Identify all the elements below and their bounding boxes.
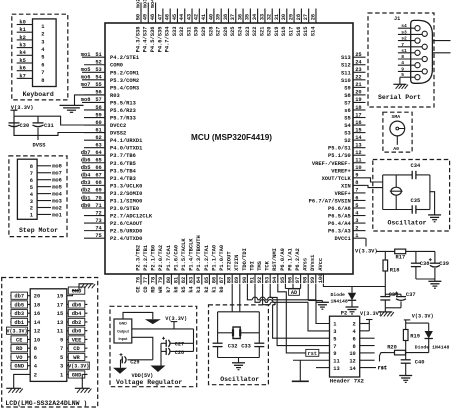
SMA label xyxy=(392,114,401,120)
MCU pin 74 P2.5/URXD0 xyxy=(84,225,142,234)
svg-text:3: 3 xyxy=(30,199,33,205)
MCU pin 57 P5.5/R13 xyxy=(81,97,136,106)
svg-text:54: 54 xyxy=(95,75,102,81)
svg-text:1N4148: 1N4148 xyxy=(331,298,348,304)
svg-text:8: 8 xyxy=(353,344,356,350)
MCU pin 58 P5.6/R23 xyxy=(84,105,136,114)
step motor module dashed box xyxy=(9,156,67,237)
svg-text:44: 44 xyxy=(179,13,185,20)
svg-text:P5.5/R13: P5.5/R13 xyxy=(110,100,136,106)
keyboard connector body xyxy=(33,19,57,87)
svg-text:4: 4 xyxy=(401,60,404,66)
oscillator2 module dashed box xyxy=(209,305,269,385)
wire pin 92 TMS to header pin 5 xyxy=(263,284,330,338)
svg-text:25: 25 xyxy=(355,52,361,58)
wire pin 93 TCK to header pin 7 xyxy=(270,284,329,346)
MCU pin 81 P1.6/CA0 xyxy=(173,245,179,293)
power net V(3.3V) header xyxy=(360,311,382,320)
header pins 1 2 xyxy=(333,322,356,328)
MCU pin 66 P3.5/TB4 xyxy=(81,165,137,174)
svg-text:GND: GND xyxy=(72,289,82,295)
MCU pin 29 S17 xyxy=(288,9,294,37)
svg-text:S32: S32 xyxy=(179,27,185,37)
SMA wire to net A0 xyxy=(393,136,399,152)
resistor R18 xyxy=(383,251,400,296)
LCD pin 2 wire to ground xyxy=(14,372,37,388)
capacitor C28 xyxy=(166,348,184,356)
capacitor C32 xyxy=(213,343,238,349)
svg-text:S31: S31 xyxy=(186,27,192,37)
svg-text:83: 83 xyxy=(189,277,195,283)
svg-text:42: 42 xyxy=(194,14,200,20)
svg-text:R20: R20 xyxy=(387,345,397,351)
svg-text:86: 86 xyxy=(211,277,217,283)
svg-text:S10: S10 xyxy=(341,78,351,84)
svg-text:mo3: mo3 xyxy=(52,198,62,204)
svg-text:11: 11 xyxy=(57,329,63,335)
serial wire s1 xyxy=(398,48,415,54)
svg-text:C32: C32 xyxy=(228,344,238,350)
svg-text:Serial Port: Serial Port xyxy=(378,94,421,101)
svg-text:RD: RD xyxy=(16,346,23,352)
svg-text:29: 29 xyxy=(288,14,294,20)
LCD pin 11 net db0 xyxy=(57,327,88,335)
svg-text:DVSS2: DVSS2 xyxy=(110,131,126,137)
MCU pin 79 P2.0/TA2 xyxy=(158,245,164,293)
serial wire s2 xyxy=(398,36,415,42)
svg-text:db5: db5 xyxy=(14,302,24,308)
svg-text:S29: S29 xyxy=(201,27,207,37)
wire MCU pin 88 XT2OUT to oscillator2 xyxy=(231,284,233,312)
svg-text:P3.1/SIMO0: P3.1/SIMO0 xyxy=(110,198,142,204)
svg-text:R18: R18 xyxy=(390,267,400,273)
MCU pin 72 P2.7/ADC12CLK xyxy=(84,210,153,219)
svg-text:C35: C35 xyxy=(411,198,421,204)
MCU pin 18 s6 xyxy=(344,105,365,114)
MCU pin 51 P4.2/STE1 xyxy=(81,52,139,61)
keyboard pin 1 net k0 xyxy=(17,19,45,30)
svg-text:10: 10 xyxy=(34,337,40,343)
header P2 body xyxy=(330,316,360,377)
keyboard pin 5 net k4 xyxy=(17,50,45,61)
header pins 7 8 xyxy=(333,344,356,350)
svg-text:P5.1/S0: P5.1/S0 xyxy=(328,153,351,159)
wire pin 91 TDI to header pin 3 xyxy=(255,284,330,331)
svg-text:76: 76 xyxy=(135,277,141,283)
svg-text:11: 11 xyxy=(355,158,361,164)
LCD pin 4 net GND xyxy=(10,362,38,370)
serial port module dashed box xyxy=(368,13,434,107)
LCD pin 1 wire to ground xyxy=(82,374,87,388)
MCU pin 4 P6.5/A5 xyxy=(328,210,365,219)
SMA module dashed box xyxy=(383,112,412,152)
serial wire 7 xyxy=(398,42,422,48)
header pins 9 10 xyxy=(333,351,356,357)
svg-text:P3.7/TB6: P3.7/TB6 xyxy=(110,153,136,159)
svg-text:15: 15 xyxy=(57,311,63,317)
LCD pin 7 net CD xyxy=(60,345,87,353)
svg-text:6: 6 xyxy=(355,195,358,201)
wire C36 C37 tops xyxy=(385,293,401,295)
svg-text:7: 7 xyxy=(30,171,33,177)
svg-text:S5: S5 xyxy=(344,116,350,122)
keyboard pin 7 net k6 xyxy=(17,66,45,77)
crystal Y1 xyxy=(390,175,403,210)
MCU pin 14 S2 xyxy=(344,135,365,144)
wire V3.3 rail to MCU pin 60 DVCC2 xyxy=(14,116,105,125)
LCD pin 18 net db5 xyxy=(10,301,40,309)
svg-text:P5.7/R33: P5.7/R33 xyxy=(110,116,136,122)
svg-text:AVss: AVss xyxy=(303,258,309,271)
svg-text:13: 13 xyxy=(355,142,361,148)
svg-text:P3.0/STE0: P3.0/STE0 xyxy=(110,206,139,212)
ground below C39 xyxy=(428,281,441,288)
svg-text:52: 52 xyxy=(95,60,101,66)
svg-text:P4.6/S35: P4.6/S35 xyxy=(157,27,163,53)
svg-text:GND: GND xyxy=(72,372,82,378)
wire regulator GND to ground xyxy=(123,312,153,319)
MCU pin 45 S33 xyxy=(172,9,178,37)
svg-text:TMS: TMS xyxy=(257,260,263,270)
svg-text:10: 10 xyxy=(349,351,355,357)
serial port label xyxy=(378,94,421,101)
ground below pins 98 99 xyxy=(316,302,329,309)
svg-text:RST/NMI: RST/NMI xyxy=(272,248,278,271)
svg-text:5: 5 xyxy=(41,55,44,61)
svg-text:R17: R17 xyxy=(396,255,406,261)
svg-text:P6.4/A4: P6.4/A4 xyxy=(328,221,351,227)
svg-text:99: 99 xyxy=(310,277,316,283)
svg-text:rst: rst xyxy=(378,365,387,371)
svg-text:P5.4/COM3: P5.4/COM3 xyxy=(110,85,139,91)
svg-text:C33: C33 xyxy=(241,344,251,350)
MCU pin 48 P4.5/S36 xyxy=(150,0,156,52)
MCU pin 82 P1.5/TACLK xyxy=(181,238,187,293)
wire C27 C28 to ground xyxy=(160,351,162,365)
svg-text:41: 41 xyxy=(201,14,207,20)
svg-text:26: 26 xyxy=(310,14,316,20)
svg-text:V(3.3V): V(3.3V) xyxy=(165,316,187,322)
keyboard pin 3 net k2 xyxy=(17,35,45,46)
step motor connector body xyxy=(17,159,37,219)
step motor pin 1 net mo1 xyxy=(30,212,62,218)
svg-text:82: 82 xyxy=(181,277,187,283)
svg-text:DVCC2: DVCC2 xyxy=(110,123,126,129)
wire rst node R20 R19 D2 xyxy=(387,352,429,354)
MCU pin 6 P6.7/A7/SVSIN xyxy=(309,195,366,204)
svg-text:k2: k2 xyxy=(204,286,210,292)
svg-text:7: 7 xyxy=(41,70,44,76)
svg-text:Input: Input xyxy=(119,337,129,341)
svg-text:P2: P2 xyxy=(341,310,347,316)
svg-text:k7: k7 xyxy=(19,73,25,79)
svg-text:16: 16 xyxy=(34,311,40,317)
svg-text:67: 67 xyxy=(95,173,101,179)
LCD pin 8 net RD xyxy=(10,345,37,353)
MCU pin 43 S31 xyxy=(186,9,192,37)
header pins 11 12 xyxy=(333,358,356,364)
MCU pin 40 S28 xyxy=(208,9,214,37)
svg-text:13: 13 xyxy=(57,320,63,326)
capacitor C40 xyxy=(401,353,425,376)
svg-text:db2: db2 xyxy=(81,188,91,194)
svg-text:db0: db0 xyxy=(81,203,91,209)
svg-text:3: 3 xyxy=(355,218,358,224)
svg-text:18: 18 xyxy=(34,302,40,308)
wire pin 100 AVcc to diode node xyxy=(323,284,385,287)
svg-text:5: 5 xyxy=(355,203,358,209)
wire pin 90 TDO/TDI to header pin 1 xyxy=(247,284,329,324)
svg-text:J1: J1 xyxy=(394,16,400,22)
svg-text:mo2: mo2 xyxy=(52,205,62,211)
MCU pin 56 R03 xyxy=(84,90,120,99)
svg-text:mo6: mo6 xyxy=(81,75,91,81)
svg-text:92: 92 xyxy=(257,277,263,283)
svg-text:P2.6/CAOUT: P2.6/CAOUT xyxy=(110,221,143,227)
MCU pin 70 P3.1/SIMO0 xyxy=(81,195,143,204)
LCD label xyxy=(5,400,87,407)
keyboard pin 6 net k5 xyxy=(17,58,45,69)
ground below C27 C28 xyxy=(151,366,166,373)
svg-text:S4: S4 xyxy=(344,123,351,129)
svg-text:18: 18 xyxy=(355,105,361,111)
svg-text:C40: C40 xyxy=(415,359,425,365)
svg-text:P5.2/COM1: P5.2/COM1 xyxy=(110,70,139,76)
svg-text:1: 1 xyxy=(60,372,63,378)
svg-text:P1.7/CA1: P1.7/CA1 xyxy=(166,245,172,271)
svg-text:S20: S20 xyxy=(267,27,273,37)
svg-text:15: 15 xyxy=(355,127,361,133)
wire MCU pin 56 R03 to ground xyxy=(75,95,106,105)
svg-text:39: 39 xyxy=(216,14,222,20)
MCU pin 34 S22 xyxy=(252,9,258,37)
wire C36 C37 bottoms to ground xyxy=(385,308,401,312)
svg-text:VREF+: VREF+ xyxy=(335,191,351,197)
step motor pin 8 net mo8 xyxy=(30,164,62,170)
svg-text:db6: db6 xyxy=(72,302,82,308)
svg-text:S30: S30 xyxy=(194,27,200,37)
MCU pin 80 P1.7/CA1 xyxy=(166,245,172,293)
svg-text:s1: s1 xyxy=(401,48,407,54)
svg-text:93: 93 xyxy=(265,277,271,283)
MCU pin 38 S26 xyxy=(223,9,229,37)
svg-text:mo2: mo2 xyxy=(135,0,141,8)
svg-text:Oscillator: Oscillator xyxy=(388,219,427,226)
MCU pin 90 TDO/TDI xyxy=(242,248,248,283)
svg-text:9: 9 xyxy=(333,351,336,357)
MCU pin 71 P3.0/STE0 xyxy=(81,203,139,212)
svg-text:P3.4/TB3: P3.4/TB3 xyxy=(110,176,136,182)
connector J1 designator xyxy=(394,16,400,22)
svg-text:k6: k6 xyxy=(19,66,25,72)
svg-text:C31: C31 xyxy=(44,123,54,129)
svg-text:S22: S22 xyxy=(252,27,258,37)
svg-text:P3.5/TB4: P3.5/TB4 xyxy=(110,168,137,174)
svg-text:S15: S15 xyxy=(303,27,309,37)
svg-text:3: 3 xyxy=(333,329,336,335)
svg-text:98: 98 xyxy=(303,277,309,283)
capacitor C39 xyxy=(429,251,449,279)
step motor label xyxy=(19,227,58,234)
svg-text:19: 19 xyxy=(57,294,63,300)
MCU pin 17 S5 xyxy=(344,112,365,121)
svg-text:V(3.3V): V(3.3V) xyxy=(355,248,378,254)
MCU pin 21 S9 xyxy=(344,82,365,91)
MCU pin 5 P6.6/A6 xyxy=(328,203,365,212)
svg-text:P4.5/S36: P4.5/S36 xyxy=(150,27,156,53)
svg-text:87: 87 xyxy=(219,277,225,283)
svg-text:Header 7X2: Header 7X2 xyxy=(330,377,365,384)
resistor R20 xyxy=(387,345,405,355)
svg-text:V(3.3V): V(3.3V) xyxy=(360,311,382,317)
svg-text:VO: VO xyxy=(16,355,23,361)
svg-text:C34: C34 xyxy=(411,163,421,169)
svg-text:6: 6 xyxy=(30,178,33,184)
capacitor C34 xyxy=(411,163,421,179)
MCU pin 44 S32 xyxy=(179,9,185,37)
voltage regulator label xyxy=(116,379,182,386)
svg-text:S27: S27 xyxy=(216,27,222,37)
oscillator2 top rail wire xyxy=(218,311,260,313)
MCU pin 67 P3.4/TB3 xyxy=(81,173,136,182)
MCU pin 99 DVss1 xyxy=(310,255,316,284)
svg-text:5: 5 xyxy=(30,185,33,191)
MCU pin 96 P6.1/A1 xyxy=(287,248,293,283)
svg-text:84: 84 xyxy=(196,276,202,283)
wire DVSS rail to MCU pin 61 DVSS2 xyxy=(14,116,105,135)
oscillator1 bottom rail wire xyxy=(383,209,430,211)
svg-text:2: 2 xyxy=(353,322,356,328)
svg-text:S13: S13 xyxy=(341,55,351,61)
svg-text:LCD(LMG-SS32A24DLNW ): LCD(LMG-SS32A24DLNW ) xyxy=(5,400,87,407)
svg-text:13: 13 xyxy=(333,366,339,372)
svg-text:74: 74 xyxy=(95,225,102,231)
step motor pin 4 net mo4 xyxy=(30,191,63,197)
svg-text:Oscillator: Oscillator xyxy=(220,376,259,383)
MCU pin 8 XIN xyxy=(341,180,366,189)
svg-text:8: 8 xyxy=(355,180,358,186)
voltage regulator module dashed box xyxy=(110,306,197,386)
DB9 pin circle right 9 xyxy=(422,69,427,74)
svg-text:XOUT/TCLK: XOUT/TCLK xyxy=(322,176,352,182)
svg-text:49: 49 xyxy=(143,14,149,20)
MCU pin 91 TDI xyxy=(249,261,255,283)
svg-text:P4.1/URXD1: P4.1/URXD1 xyxy=(110,138,142,144)
svg-text:P2.7/ADC12CLK: P2.7/ADC12CLK xyxy=(110,214,153,220)
svg-text:C37: C37 xyxy=(406,292,416,298)
ground below C36 xyxy=(378,312,394,317)
svg-text:CD: CD xyxy=(143,286,149,293)
svg-text:43: 43 xyxy=(186,14,192,20)
svg-text:17: 17 xyxy=(355,112,361,118)
header pins 13 14 xyxy=(333,366,356,372)
svg-text:46: 46 xyxy=(165,14,171,20)
svg-text:V(3.3V): V(3.3V) xyxy=(6,329,27,335)
oscillator1 module dashed box xyxy=(373,160,450,232)
MCU pin 68 P3.3/UCLK0 xyxy=(81,180,143,189)
svg-text:db1: db1 xyxy=(81,195,91,201)
svg-text:mo7: mo7 xyxy=(81,82,91,88)
svg-text:P6.3/A3: P6.3/A3 xyxy=(328,229,351,235)
MCU pin 52 COM0 xyxy=(84,60,123,69)
svg-text:k0: k0 xyxy=(19,19,25,25)
MCU pin 98 AVss xyxy=(303,258,309,283)
svg-text:36: 36 xyxy=(237,14,243,20)
power net V(3.3V) bottom right xyxy=(404,314,434,320)
wire pins 95 96 97 to net AD xyxy=(285,284,300,296)
svg-text:mo3: mo3 xyxy=(143,0,149,8)
step motor pin 5 net mo5 xyxy=(30,184,62,190)
LCD pin 14 net db1 xyxy=(10,318,41,326)
svg-text:88: 88 xyxy=(227,277,233,283)
svg-text:27: 27 xyxy=(303,14,309,20)
MCU pin 1 DVCC1 xyxy=(335,233,366,242)
capacitor C33 xyxy=(241,343,264,349)
svg-text:AD: AD xyxy=(291,290,297,296)
MCU pin 77 P2.2/TB1 xyxy=(143,245,149,293)
serial wire s4 xyxy=(398,23,415,29)
DB9 pin circle right 8 xyxy=(422,56,427,61)
svg-text:P1.4/TBCLK: P1.4/TBCLK xyxy=(189,238,195,271)
DB9 pin circle left 4 xyxy=(415,63,420,68)
MCU pin 9 XOUT/TCLK xyxy=(322,173,366,182)
MCU pin 73 P2.6/CAOUT xyxy=(84,218,143,227)
svg-text:COM0: COM0 xyxy=(110,63,123,69)
capacitor C35 xyxy=(411,198,421,214)
svg-text:GND: GND xyxy=(14,364,24,370)
MCU pin 19 S7 xyxy=(344,97,365,106)
svg-text:P2.1/TB0: P2.1/TB0 xyxy=(151,245,157,271)
ground header T-bar xyxy=(292,380,309,382)
diode D1 1N4148 xyxy=(331,287,357,308)
resistor R19 xyxy=(403,324,420,353)
svg-text:C30: C30 xyxy=(20,123,30,129)
header P2 designator xyxy=(341,310,347,316)
svg-text:20: 20 xyxy=(355,90,361,96)
svg-text:68: 68 xyxy=(95,180,101,186)
svg-text:2: 2 xyxy=(34,372,37,378)
svg-text:30: 30 xyxy=(281,14,287,20)
svg-text:db6: db6 xyxy=(81,158,91,164)
ground below C40 xyxy=(399,376,412,383)
svg-text:7: 7 xyxy=(60,346,63,352)
LCD pin 5 net WR xyxy=(60,353,87,361)
keyboard pin 8 net k7 xyxy=(17,73,45,84)
wire header pin 10 stub xyxy=(360,352,375,354)
svg-text:mo8: mo8 xyxy=(81,97,91,103)
keyboard pin 2 net k1 xyxy=(17,27,45,37)
svg-text:XT2OUT: XT2OUT xyxy=(227,251,233,271)
svg-text:P6.0/A0: P6.0/A0 xyxy=(280,248,286,271)
MCU pin 2 P6.3/A3 xyxy=(328,225,365,234)
svg-text:3: 3 xyxy=(60,364,63,370)
svg-text:RD: RD xyxy=(151,286,157,293)
MCU pin 22 S10 xyxy=(341,75,366,84)
DB9 pin circle right 6 xyxy=(422,31,427,36)
svg-text:23: 23 xyxy=(355,67,361,73)
svg-text:9: 9 xyxy=(355,173,358,179)
svg-text:2: 2 xyxy=(30,206,33,212)
svg-text:P6.2/A2: P6.2/A2 xyxy=(295,248,301,271)
MCU pin 41 S29 xyxy=(201,9,207,37)
svg-text:32: 32 xyxy=(267,14,273,20)
oscillator2 bottom rail to ground xyxy=(218,358,260,363)
svg-text:17: 17 xyxy=(57,302,63,308)
MCU pin 89 XT2IN xyxy=(234,255,240,284)
svg-text:5: 5 xyxy=(401,72,404,78)
svg-text:Output: Output xyxy=(117,329,130,333)
DB9 pin circle left 1 xyxy=(415,26,420,31)
